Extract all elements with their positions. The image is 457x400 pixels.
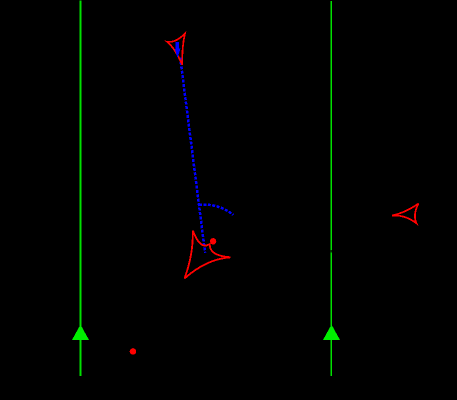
red dot lower left — [130, 348, 137, 355]
red dot near plane 2 — [210, 238, 216, 244]
dashed angle arc — [199, 205, 233, 215]
wire 2 (right current-carrying wire) — [330, 1, 332, 376]
current arrow on wire 2 — [323, 325, 340, 341]
plane 3 (right red deltoid) — [392, 204, 419, 224]
current arrow on wire 1 — [72, 325, 89, 341]
notch on wire 2 — [330, 250, 332, 252]
plane 1 (top red deltoid) — [167, 33, 185, 64]
wire 1 (left current-carrying wire) — [80, 1, 82, 377]
dashed sight line from plane 1 to plane 2 — [180, 58, 205, 253]
velocity vector of plane 1 (blue arrow) — [175, 42, 181, 58]
plane 2 (bottom large red deltoid) — [185, 231, 231, 279]
